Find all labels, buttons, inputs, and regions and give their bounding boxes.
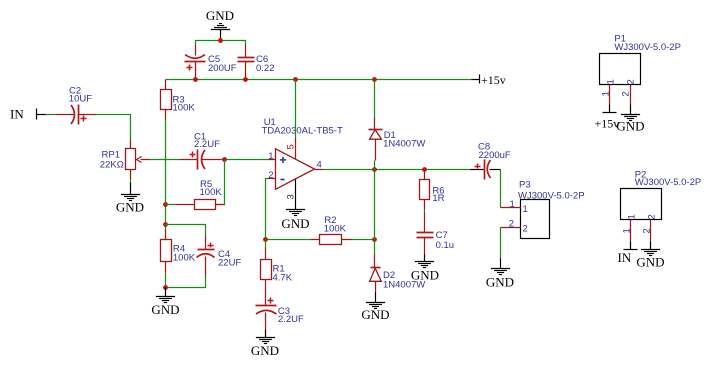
wire RP1 wiper to C1 [150, 159, 180, 161]
diode D2 [370, 255, 426, 293]
wire top GND horizontal [196, 41, 246, 45]
op-amp pin 4 lead [315, 160, 323, 171]
P1 pin 2 [621, 79, 637, 104]
node R6 out [422, 167, 427, 172]
svg-text:GND: GND [281, 216, 309, 231]
svg-text:2: 2 [626, 79, 637, 84]
wire C2 to RP1 [96, 115, 131, 140]
op-amp pin 3 lead [286, 180, 297, 210]
ground op-amp [281, 210, 309, 232]
wire R1 top stub [265, 240, 267, 249]
port IN [10, 107, 46, 122]
svg-text:GND: GND [251, 343, 279, 358]
wire R2 rail [266, 239, 311, 241]
resistor R3 [161, 80, 196, 120]
node C5 on rail [193, 77, 198, 82]
op-amp pin 2 lead [268, 170, 275, 181]
svg-text:100K: 100K [173, 253, 196, 264]
svg-text:1: 1 [622, 228, 633, 233]
node C1 right [222, 157, 227, 162]
wire pin5 to rail [295, 80, 297, 139]
P3 pin 2 [501, 219, 528, 235]
resistor R2 [311, 215, 353, 245]
node C6 on rail [243, 77, 248, 82]
svg-text:0.1u: 0.1u [436, 240, 455, 251]
wire P3 pin2 down [500, 228, 502, 259]
svg-text:GND: GND [361, 307, 389, 322]
P1 pin 1 [601, 79, 617, 104]
svg-text:4: 4 [317, 160, 322, 171]
op-amp pin 5 lead [286, 139, 297, 159]
svg-text:2: 2 [647, 214, 658, 219]
ground P2 [636, 242, 664, 270]
ground top (inverted) [206, 8, 234, 40]
svg-text:1: 1 [606, 79, 617, 84]
svg-text:200UF: 200UF [208, 63, 237, 74]
svg-text:WJ300V-5.0-2P: WJ300V-5.0-2P [614, 42, 681, 53]
capacitor C4 [197, 236, 242, 276]
svg-text:2: 2 [621, 91, 632, 96]
wire pin2 net down [266, 179, 269, 240]
svg-text:GND: GND [116, 200, 144, 215]
node D1 out [372, 167, 377, 172]
wire D1 to out rail [374, 161, 376, 170]
wire output rail [323, 169, 471, 171]
diode D1 [369, 118, 426, 161]
node junction top GND [218, 38, 223, 43]
wire left column [165, 120, 167, 230]
wire R5 left stub [166, 204, 176, 206]
port IN P2 [618, 242, 638, 266]
capacitor C7 [417, 213, 455, 255]
wire D1 top [374, 80, 376, 118]
node R5 left [163, 202, 168, 207]
svg-text:2200uF: 2200uF [479, 150, 511, 161]
svg-text:WJ300V-5.0-2P: WJ300V-5.0-2P [518, 191, 585, 202]
ground C7 [411, 255, 439, 283]
svg-text:2: 2 [268, 170, 273, 181]
svg-text:2: 2 [642, 228, 653, 233]
ground C3 [251, 330, 279, 359]
port +15v P1 [595, 105, 620, 131]
svg-text:P3: P3 [519, 180, 531, 191]
P2 pin 2 [642, 214, 658, 241]
capacitor C3 [256, 296, 304, 330]
svg-text:2: 2 [509, 219, 514, 230]
header P1 [600, 33, 681, 84]
wire R2 rail right [353, 239, 375, 241]
wire out to R2 rail vertical [374, 170, 376, 240]
ground RP1 [116, 183, 144, 215]
ground P3 [486, 259, 514, 290]
wire C4 tap horizontal [166, 225, 206, 236]
svg-text:1: 1 [510, 199, 515, 210]
svg-text:2.2UF: 2.2UF [194, 139, 220, 150]
svg-text:4.7K: 4.7K [273, 272, 293, 283]
svg-text:TDA2030AL-TB5-T: TDA2030AL-TB5-T [262, 125, 344, 136]
capacitor C8 [471, 142, 511, 180]
header P2 [621, 169, 702, 219]
svg-text:1: 1 [627, 214, 638, 219]
potentiometer RP1 [100, 140, 150, 180]
svg-text:0.22: 0.22 [256, 63, 275, 74]
svg-text:1: 1 [523, 204, 528, 215]
svg-text:5: 5 [286, 144, 297, 149]
node R2 D2 [372, 237, 377, 242]
svg-text:+15v: +15v [481, 73, 506, 87]
svg-text:WJ300V-5.0-2P: WJ300V-5.0-2P [635, 177, 702, 188]
svg-text:1R: 1R [432, 193, 444, 204]
svg-text:2.2UF: 2.2UF [278, 314, 304, 325]
svg-text:100K: 100K [200, 187, 223, 198]
P3 pin 1 [501, 199, 528, 215]
resistor R5 [176, 179, 225, 210]
svg-text:1: 1 [268, 151, 273, 162]
svg-text:1: 1 [601, 91, 612, 96]
op-amp U1 [262, 117, 344, 190]
wire R4 C4 bottom [166, 273, 206, 288]
node D1 on rail [372, 77, 377, 82]
svg-text:GND: GND [206, 8, 234, 23]
svg-text:22KΩ: 22KΩ [100, 160, 124, 171]
wire D2 top stub [374, 240, 376, 255]
svg-text:1N4007W: 1N4007W [383, 138, 425, 149]
node C4 tap [163, 222, 168, 227]
svg-text:GND: GND [411, 268, 439, 283]
svg-text:GND: GND [486, 275, 514, 290]
wire +15v rail [166, 79, 472, 81]
wire RP1 gnd stub [130, 180, 132, 183]
svg-text:3: 3 [286, 194, 297, 199]
capacitor C2 [56, 86, 96, 125]
node pin5 on rail [293, 77, 298, 82]
op-amp pin 1 lead [268, 151, 275, 162]
wire IN to C2 [46, 114, 56, 116]
svg-text:2: 2 [523, 224, 528, 235]
capacitor C6 [238, 45, 275, 80]
svg-text:22UF: 22UF [218, 257, 241, 268]
svg-text:IN: IN [618, 250, 632, 265]
resistor R4 [161, 230, 196, 273]
wire R6 C7 stub [424, 210, 426, 213]
resistor R1 [261, 249, 293, 297]
wire node down to R5 [216, 160, 225, 205]
header P3 [518, 180, 585, 239]
svg-text:GND: GND [151, 302, 179, 317]
P2 pin 1 [622, 214, 638, 241]
svg-text:10UF: 10UF [69, 94, 92, 105]
svg-text:IN: IN [10, 107, 24, 122]
ground D2 [361, 293, 389, 323]
port +15v [472, 73, 506, 87]
svg-text:GND: GND [616, 119, 644, 134]
node R1 R2 [263, 237, 268, 242]
wire C8 to P3 pin1 [500, 170, 502, 208]
svg-text:100K: 100K [324, 224, 347, 235]
ground R4 [151, 288, 179, 318]
capacitor C1 [180, 132, 221, 170]
svg-text:100K: 100K [173, 103, 196, 114]
resistor R6 [420, 170, 445, 210]
svg-text:GND: GND [636, 255, 664, 270]
ground P1 [616, 105, 644, 134]
capacitor C5 [185, 45, 237, 80]
wire C1 to pin1 [221, 159, 269, 161]
node bottom gnd R4 [163, 285, 168, 290]
